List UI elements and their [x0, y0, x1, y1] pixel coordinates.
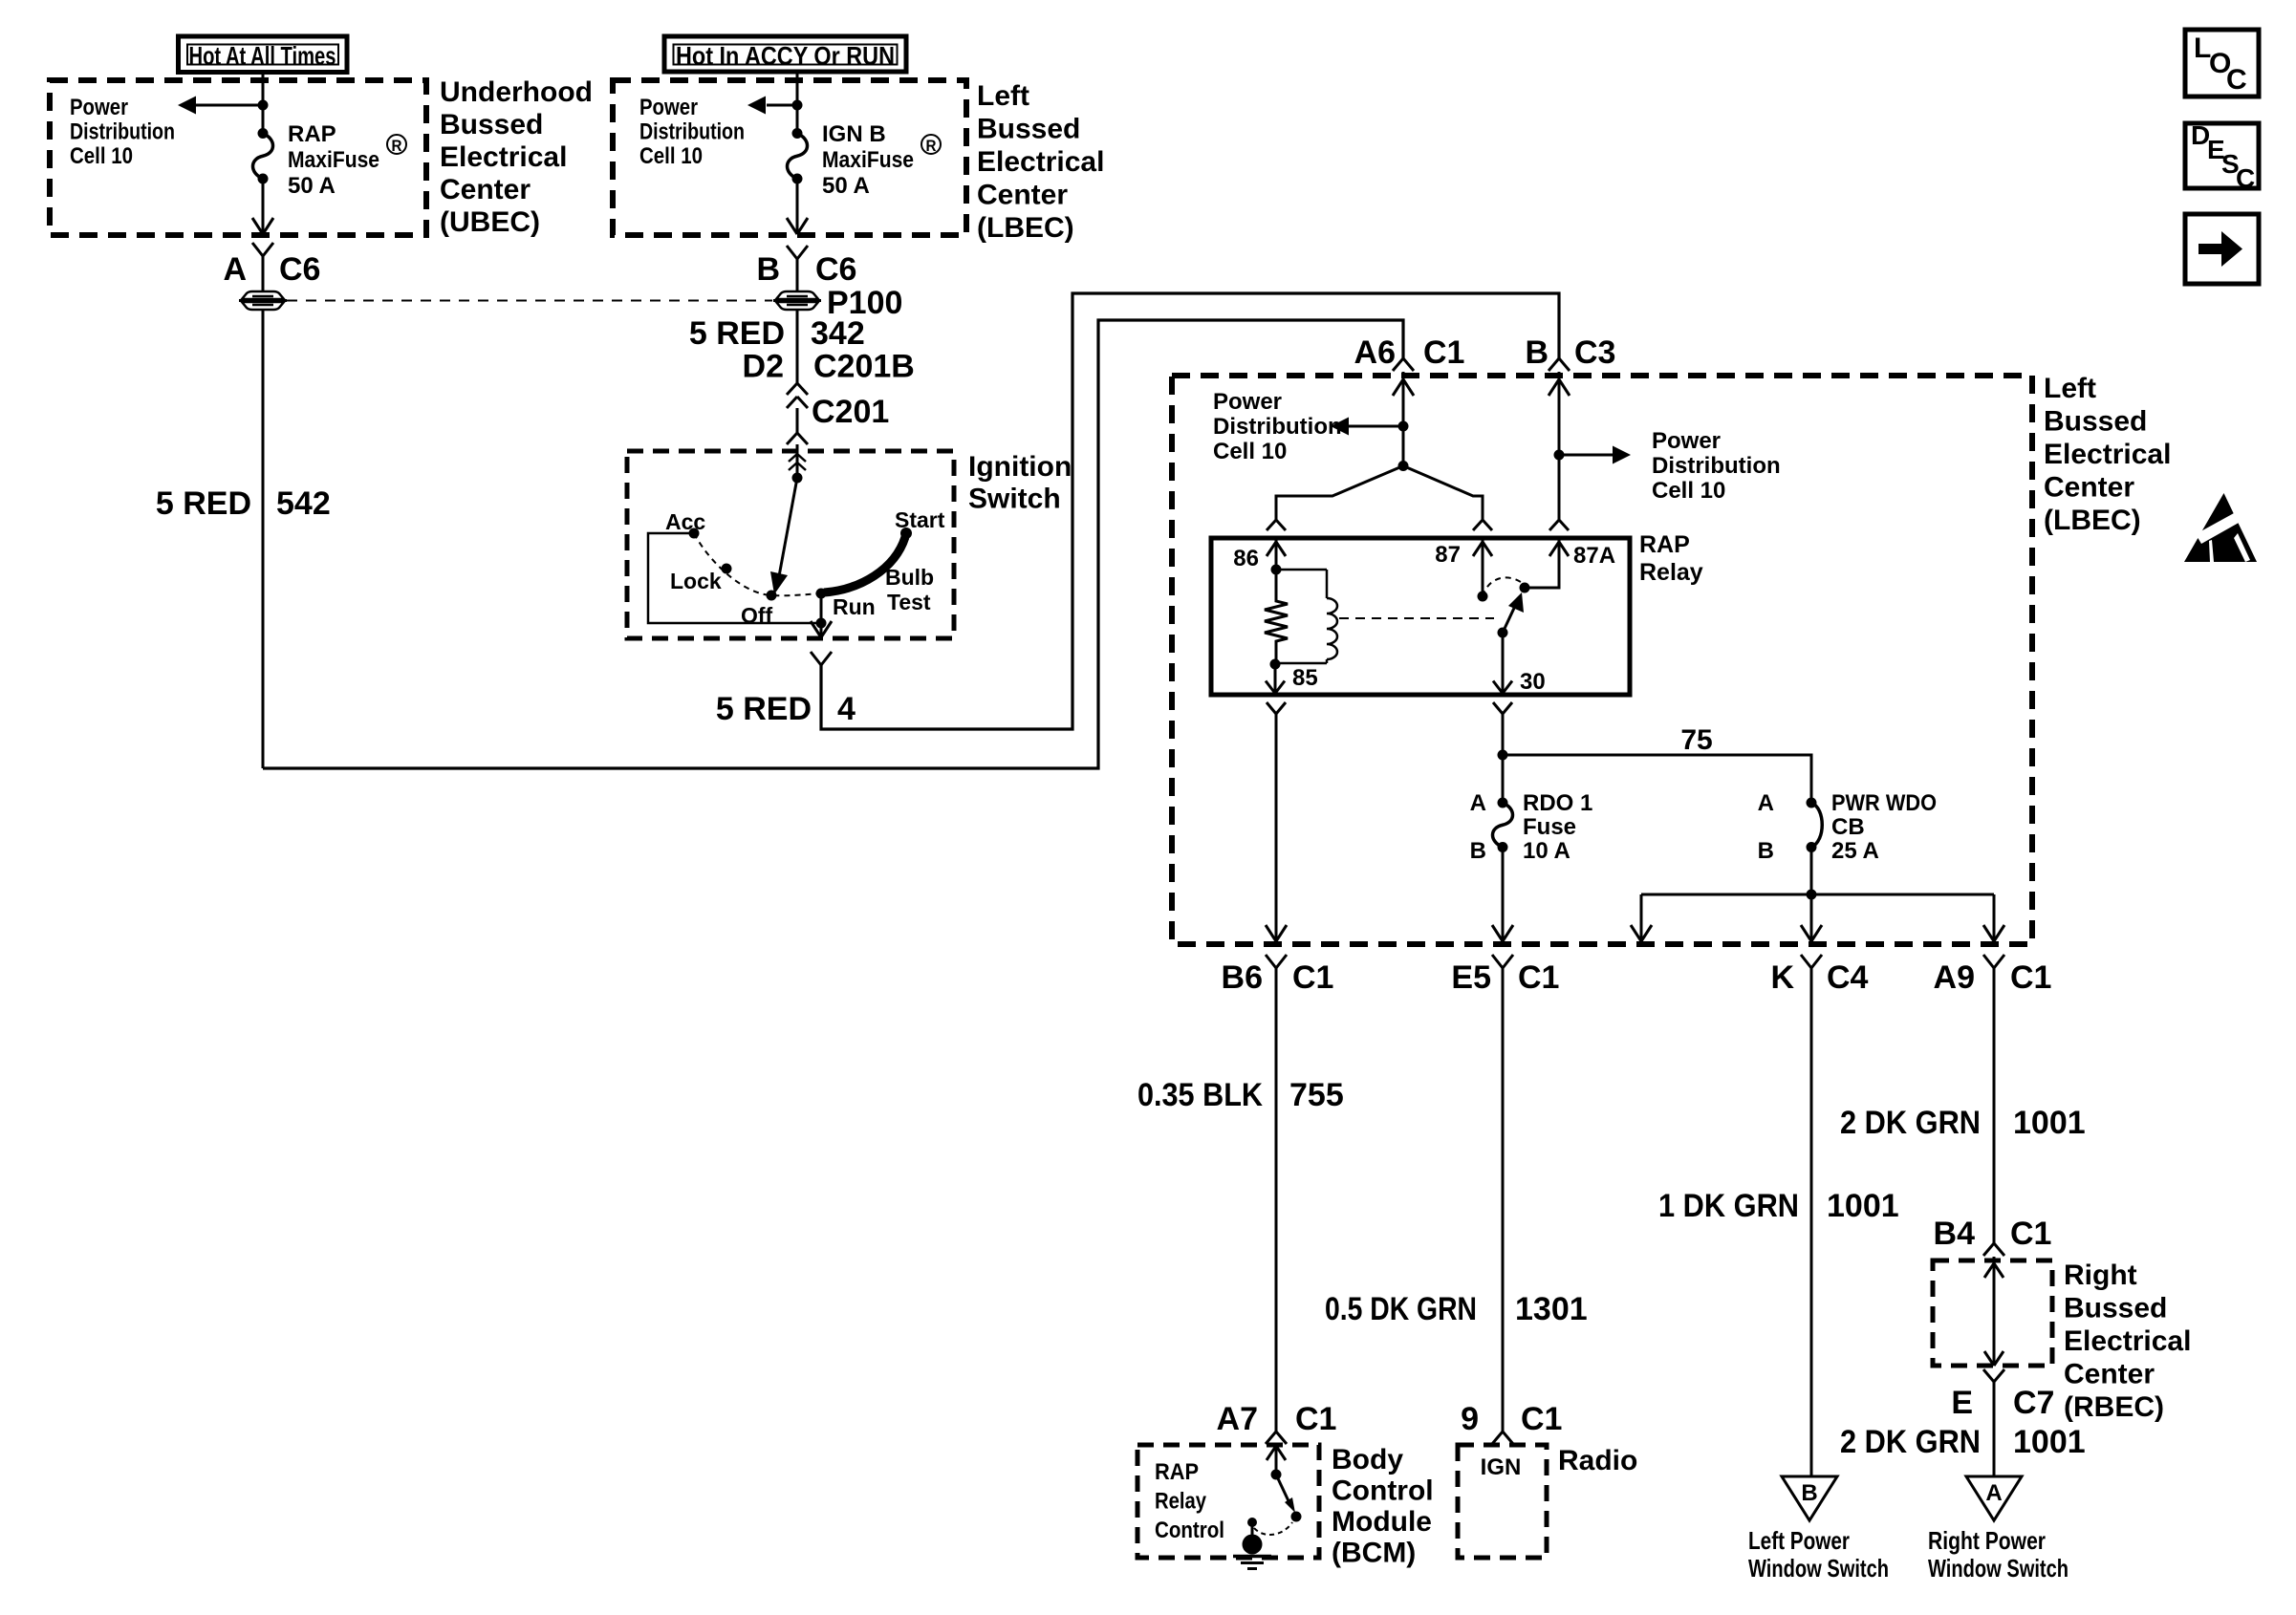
label D2 C201B [743, 349, 915, 385]
relay pin 87A contact [1520, 538, 1570, 593]
svg-text:Distribution: Distribution [639, 119, 745, 145]
svg-text:Center: Center [977, 180, 1068, 211]
svg-text:C6: C6 [279, 251, 320, 288]
svg-text:Right: Right [2064, 1260, 2137, 1291]
svg-text:Distribution: Distribution [70, 119, 175, 145]
wire B C3 to relay pin 87A [1558, 455, 1561, 521]
ignition Start contact [900, 528, 912, 539]
svg-text:Hot In ACCY Or RUN: Hot In ACCY Or RUN [676, 42, 895, 71]
svg-text:Center: Center [2044, 472, 2134, 504]
label Right Power Window Switch [1928, 1526, 2069, 1583]
svg-text:Electrical: Electrical [977, 146, 1104, 178]
wire pin 85 to LBEC bottom edge [1266, 714, 1287, 941]
relay RAP Relay box [1211, 538, 1630, 695]
relay coil resistor [1265, 570, 1288, 670]
label 5 RED 542 [156, 485, 331, 522]
connector chevron below relay pin 30 [1493, 702, 1503, 714]
svg-text:Left: Left [977, 80, 1029, 112]
relay pin 87 contact [1473, 538, 1492, 602]
labels K C4 [1770, 959, 1868, 996]
connector chevron B6 C1 [1266, 955, 1276, 968]
arrow to Power Distribution Cell 10 (LBEC left) [1331, 418, 1409, 436]
connector C201 double chevron [787, 383, 808, 408]
labels A7 C1 [1217, 1401, 1337, 1437]
icon LOC box [2185, 30, 2259, 97]
svg-text:Window Switch: Window Switch [1928, 1554, 2069, 1583]
wire from Hot In ACCY banner into LBEC [796, 72, 799, 105]
wire fuse to UBEC bottom edge with arrow [252, 179, 273, 234]
ignition detent dashed arc Acc-Lock-Off-Run [694, 533, 821, 595]
wire through RBEC with arrows [1984, 1257, 2004, 1366]
svg-text:Bussed: Bussed [977, 114, 1080, 145]
connector A6 C1 into LBEC [1393, 358, 1414, 466]
svg-text:Bussed: Bussed [2064, 1293, 2167, 1324]
svg-text:Control: Control [1155, 1518, 1224, 1543]
svg-text:Electrical: Electrical [440, 141, 567, 173]
relay linkage dashed line [1339, 617, 1494, 619]
labels A C6 [223, 251, 320, 288]
svg-text:Relay: Relay [1639, 559, 1703, 586]
svg-text:Control: Control [1332, 1475, 1434, 1507]
svg-text:Acc: Acc [665, 509, 705, 534]
svg-text:Fuse: Fuse [1523, 814, 1576, 840]
box BCM dashed outline [1137, 1445, 1319, 1558]
svg-text:B: B [756, 251, 780, 288]
ignition Start thick arc [824, 537, 905, 592]
svg-text:0.35 BLK: 0.35 BLK [1137, 1077, 1263, 1113]
svg-text:50 A: 50 A [288, 173, 336, 199]
svg-text:A9: A9 [1934, 959, 1975, 996]
svg-text:Run: Run [833, 594, 876, 619]
wire 0.5 DK GRN 1301 to Radio [1502, 968, 1505, 1432]
svg-text:Left: Left [2044, 373, 2096, 404]
fuse RDO 1 10 A [1493, 803, 1513, 848]
connector chevron below UBEC [252, 243, 263, 256]
label 5 RED 342 [689, 315, 865, 352]
labels A B at PWR WDO CB [1758, 790, 1774, 864]
wire branch left to LBEC bottom edge [1631, 894, 1652, 941]
svg-text:B: B [1470, 838, 1486, 864]
svg-text:Electrical: Electrical [2044, 439, 2171, 470]
box Radio dashed outline [1458, 1445, 1547, 1558]
fuse RAP MaxiFuse 50 A [253, 105, 273, 184]
ignition Lock contact [722, 564, 732, 574]
relay pin 85 with arrow [1266, 664, 1285, 694]
svg-text:5 RED: 5 RED [689, 315, 785, 352]
svg-text:85: 85 [1292, 665, 1318, 691]
svg-text:75: 75 [1680, 724, 1712, 756]
svg-text:25 A: 25 A [1831, 838, 1879, 864]
svg-text:Right Power: Right Power [1928, 1526, 2046, 1555]
circuit breaker PWR WDO CB 25 A [1807, 798, 1823, 853]
wire Run output through box edge [811, 593, 832, 637]
label Left Power Window Switch [1748, 1526, 1889, 1583]
svg-text:MaxiFuse: MaxiFuse [822, 147, 914, 173]
svg-text:C1: C1 [1292, 959, 1333, 996]
relay pin 30 with arrow [1493, 633, 1512, 694]
ignition Acc contact and loop wire [648, 528, 821, 624]
svg-text:MaxiFuse: MaxiFuse [288, 147, 379, 173]
wire CB output with junction [1807, 848, 1817, 900]
svg-text:Power: Power [639, 95, 698, 120]
svg-text:RAP: RAP [1639, 531, 1690, 558]
label 2 DK GRN 1001 lower [1840, 1424, 2086, 1460]
svg-text:A: A [1985, 1480, 2002, 1506]
BCM ground contact [1247, 1518, 1257, 1540]
svg-text:1301: 1301 [1515, 1291, 1588, 1327]
labels E5 C1 [1451, 959, 1559, 996]
svg-text:Bussed: Bussed [2044, 406, 2147, 438]
svg-text:C1: C1 [1423, 334, 1464, 371]
ignition Run junction [816, 618, 827, 629]
svg-text:B: B [1525, 334, 1549, 371]
dashed pass-through line between grommets [287, 300, 772, 302]
svg-text:RDO 1: RDO 1 [1523, 790, 1592, 816]
connector chevron above BCM [1266, 1432, 1276, 1444]
wire 5 RED 542 vertical [262, 310, 265, 768]
wire W2 run to LBEC B C3 [821, 293, 1559, 729]
wire W1 run to LBEC A6 C1 [263, 320, 1403, 768]
svg-text:30: 30 [1520, 669, 1546, 695]
wire into ignition switch [796, 444, 799, 478]
svg-text:C201: C201 [812, 394, 889, 430]
wire pin 30 to circuit 75 junction [1498, 714, 1508, 803]
connector B C3 into LBEC [1549, 358, 1570, 455]
text RAP Relay Control [1155, 1459, 1224, 1543]
wire into BCM with arrow [1267, 1445, 1286, 1480]
svg-text:C1: C1 [1295, 1401, 1336, 1437]
box RBEC dashed outline [1933, 1260, 2052, 1366]
svg-text:Power: Power [1652, 428, 1721, 454]
wire branch center to LBEC bottom edge [1801, 894, 1822, 941]
wire RBEC to right window switch [1993, 1382, 1996, 1476]
ground symbol [1233, 1535, 1271, 1569]
connector chevron below LBEC top [787, 246, 797, 259]
svg-text:CB: CB [1831, 814, 1865, 840]
arrow to Power Distribution Cell 10 (LBEC top) [747, 97, 803, 115]
text Power Distribution Cell 10 (LBEC right) [1652, 428, 1781, 504]
label Underhood Bussed Electrical Center (UBEC) [440, 76, 593, 238]
svg-text:IGN B: IGN B [822, 121, 886, 147]
svg-text:87A: 87A [1573, 543, 1615, 569]
label Left Bussed Electrical Center (LBEC) main [2044, 373, 2171, 536]
svg-text:Distribution: Distribution [1213, 414, 1342, 440]
labels A B at RDO fuse [1470, 790, 1486, 864]
svg-text:10 A: 10 A [1523, 838, 1570, 864]
wire from Hot At All Times banner into UBEC [262, 73, 265, 106]
labels B4 C1 [1934, 1216, 2052, 1252]
svg-text:86: 86 [1233, 546, 1259, 571]
svg-text:B: B [1801, 1480, 1817, 1506]
svg-text:C: C [2226, 64, 2247, 96]
svg-text:(LBEC): (LBEC) [2044, 505, 2141, 536]
relay coil inductor [1276, 570, 1337, 663]
svg-text:Ignition: Ignition [968, 451, 1072, 483]
svg-text:Bussed: Bussed [440, 109, 543, 140]
labels E C7 [1951, 1385, 2054, 1421]
svg-text:C7: C7 [2013, 1385, 2054, 1421]
box LBEC main dashed outline [1172, 376, 2032, 944]
svg-text:Power: Power [70, 95, 128, 120]
connector chevron below RBEC [1983, 1369, 1994, 1382]
text Power Distribution Cell 10 (LBEC left) [1213, 389, 1342, 464]
connector chevron above RBEC [1983, 1243, 1994, 1256]
svg-text:Cell 10: Cell 10 [70, 143, 133, 169]
svg-text:Start: Start [895, 507, 945, 532]
label Left Bussed Electrical Center (LBEC) top [977, 80, 1104, 244]
svg-text:A: A [223, 251, 247, 288]
ESD sensitivity triangle symbol [2184, 493, 2257, 562]
wire 1 DK GRN 1001 to left window switch [1810, 968, 1813, 1476]
label Bulb Test [885, 565, 934, 614]
label PWR WDO CB 25 A [1831, 790, 1937, 864]
ignition Off contact [767, 591, 777, 601]
wire A C6 to grommet [262, 256, 265, 291]
connector chevron above relay pin 87A [1549, 520, 1559, 530]
labels A9 C1 [1934, 959, 2052, 996]
icon arrow box [2185, 214, 2259, 284]
svg-text:Center: Center [2064, 1359, 2155, 1390]
svg-text:1001: 1001 [1827, 1188, 1899, 1224]
svg-text:542: 542 [276, 485, 331, 522]
svg-text:Cell 10: Cell 10 [1213, 439, 1287, 464]
ignition wiper arrow [770, 478, 797, 594]
box Ignition Switch dashed outline [627, 451, 954, 638]
connector triangle A Right Power Window Switch [1966, 1476, 2022, 1520]
banner Hot In ACCY Or RUN [664, 36, 906, 72]
svg-text:(LBEC): (LBEC) [977, 212, 1074, 244]
svg-text:9: 9 [1461, 1401, 1479, 1437]
svg-text:C1: C1 [1521, 1401, 1562, 1437]
label 0.35 BLK 755 [1137, 1077, 1344, 1113]
svg-text:Center: Center [440, 174, 531, 205]
connector chevron above Radio [1492, 1432, 1503, 1444]
svg-text:PWR WDO: PWR WDO [1831, 790, 1937, 816]
svg-text:D2: D2 [743, 349, 784, 385]
svg-text:(UBEC): (UBEC) [440, 206, 540, 238]
svg-text:E5: E5 [1451, 959, 1491, 996]
svg-text:755: 755 [1289, 1077, 1344, 1113]
svg-text:K: K [1770, 959, 1794, 996]
svg-text:Left Power: Left Power [1748, 1526, 1850, 1555]
labels 9 C1 [1461, 1401, 1562, 1437]
label 0.5 DK GRN 1301 [1325, 1291, 1588, 1327]
relay armature with arrow [1498, 592, 1525, 638]
svg-text:A6: A6 [1354, 334, 1396, 371]
label Right Bussed Electrical Center (RBEC) [2064, 1260, 2191, 1423]
svg-text:Electrical: Electrical [2064, 1325, 2191, 1357]
svg-text:Off: Off [741, 603, 773, 628]
text Power Distribution Cell 10 (LBEC top) [639, 95, 745, 169]
ignition feed node [792, 473, 803, 484]
svg-text:C4: C4 [1827, 959, 1869, 996]
label RAP MaxiFuse 50 A [288, 121, 406, 199]
grommet pass-through (left) [242, 291, 284, 299]
box LBEC top dashed outline [613, 80, 966, 235]
svg-text:C201B: C201B [813, 349, 915, 385]
BCM linkage dashed arc [1254, 1522, 1292, 1535]
svg-text:1 DK GRN: 1 DK GRN [1658, 1188, 1799, 1224]
svg-text:5 RED: 5 RED [156, 485, 251, 522]
svg-text:Relay: Relay [1155, 1489, 1207, 1515]
svg-text:C1: C1 [1518, 959, 1559, 996]
svg-text:(RBEC): (RBEC) [2064, 1391, 2164, 1423]
svg-text:2 DK GRN: 2 DK GRN [1840, 1105, 1981, 1141]
svg-text:Switch: Switch [968, 484, 1061, 515]
svg-text:1001: 1001 [2013, 1424, 2086, 1460]
wire 2 DK GRN 1001 to RBEC [1993, 968, 1996, 1243]
connector chevron below relay pin 85 [1267, 702, 1276, 714]
svg-text:C6: C6 [815, 251, 856, 288]
wire 5 RED 342 [796, 310, 799, 383]
labels B C6 [756, 251, 856, 288]
svg-text:A: A [1470, 790, 1486, 816]
wire circuit 75 horizontal [1503, 755, 1811, 803]
connector chevron K C4 [1801, 955, 1811, 968]
svg-text:R: R [926, 137, 937, 155]
svg-text:Test: Test [887, 590, 931, 614]
svg-text:Distribution: Distribution [1652, 453, 1781, 479]
svg-text:Lock: Lock [670, 569, 722, 593]
svg-text:C: C [2236, 163, 2255, 193]
svg-text:Hot At All Times: Hot At All Times [189, 42, 336, 71]
ignition Run contact [816, 589, 827, 599]
svg-text:A7: A7 [1217, 1401, 1258, 1437]
wire fuse to LBEC bottom edge with arrow [787, 179, 808, 234]
label 5 RED 4 [716, 691, 856, 727]
wire CB distribution horizontal [1641, 894, 1994, 896]
wire 0.35 BLK 755 to BCM [1275, 968, 1278, 1432]
connector chevron above relay pin 87 [1473, 520, 1483, 530]
svg-text:2 DK GRN: 2 DK GRN [1840, 1424, 1981, 1460]
relay contact dashed arc [1483, 577, 1525, 596]
svg-text:RAP: RAP [288, 121, 336, 147]
svg-text:1001: 1001 [2013, 1105, 2086, 1141]
svg-text:A: A [1758, 790, 1774, 816]
svg-text:Cell 10: Cell 10 [639, 143, 703, 169]
labels B6 C1 [1222, 959, 1334, 996]
BCM driver armature with arrow [1276, 1475, 1302, 1522]
connector chevron above relay pin 86 [1267, 520, 1276, 530]
svg-text:C1: C1 [2010, 1216, 2051, 1252]
svg-text:Cell 10: Cell 10 [1652, 478, 1725, 504]
banner Hot At All Times [179, 36, 348, 73]
label RDO 1 Fuse 10 A [1523, 790, 1592, 864]
arrow to Power Distribution Cell 10 (LBEC right) [1554, 446, 1632, 464]
label 1 DK GRN 1001 [1658, 1188, 1899, 1224]
box UBEC dashed outline [50, 80, 426, 235]
relay pin 86 with arrow [1267, 538, 1286, 575]
wire RDO fuse to LBEC bottom edge [1492, 848, 1513, 942]
svg-text:RAP: RAP [1155, 1459, 1199, 1485]
grommet P100 [776, 291, 818, 299]
svg-text:Underhood: Underhood [440, 76, 593, 108]
connector triangle B Left Power Window Switch [1782, 1476, 1837, 1520]
svg-text:(BCM): (BCM) [1332, 1538, 1416, 1569]
svg-text:C3: C3 [1574, 334, 1615, 371]
labels B C3 [1525, 334, 1615, 371]
svg-text:4: 4 [837, 691, 856, 727]
svg-text:C1: C1 [2010, 959, 2051, 996]
label Ignition Switch [968, 451, 1072, 515]
svg-text:Radio: Radio [1558, 1445, 1637, 1476]
svg-text:B: B [1758, 838, 1774, 864]
double chevron inside ignition top [789, 454, 806, 470]
label 2 DK GRN 1001 upper [1840, 1105, 2086, 1141]
wire branch right to LBEC bottom edge [1983, 894, 2004, 941]
connector chevron above ignition switch [787, 433, 797, 444]
connector chevron A9 C1 [1983, 955, 1994, 968]
label RAP Relay [1639, 531, 1703, 586]
connector chevron below ignition switch [811, 652, 821, 665]
svg-text:B6: B6 [1222, 959, 1263, 996]
svg-text:Module: Module [1332, 1506, 1432, 1538]
svg-text:B4: B4 [1934, 1216, 1976, 1252]
text Power Distribution Cell 10 (UBEC) [70, 95, 175, 169]
svg-text:87: 87 [1435, 542, 1461, 568]
svg-text:0.5 DK GRN: 0.5 DK GRN [1325, 1291, 1477, 1327]
wire B C6 to grommet P100 [796, 259, 799, 291]
svg-text:IGN: IGN [1481, 1454, 1522, 1480]
wire Y-split to relay pins 86 and 87 [1276, 461, 1483, 521]
fuse IGN B MaxiFuse 50 A [788, 105, 808, 184]
label Body Control Module (BCM) [1332, 1444, 1434, 1569]
svg-text:Body: Body [1332, 1444, 1403, 1475]
svg-text:342: 342 [811, 315, 865, 352]
arrow to Power Distribution Cell 10 (UBEC) [178, 97, 269, 115]
icon DESC box [2185, 120, 2259, 193]
label IGN B MaxiFuse 50 A [822, 121, 941, 199]
wire C201 to ignition switch [796, 408, 799, 433]
svg-text:50 A: 50 A [822, 173, 870, 199]
svg-text:Power: Power [1213, 389, 1282, 415]
svg-text:Bulb: Bulb [885, 565, 934, 590]
svg-text:Window Switch: Window Switch [1748, 1554, 1889, 1583]
labels A6 C1 [1354, 334, 1465, 371]
svg-text:E: E [1951, 1385, 1973, 1421]
connector chevron E5 C1 [1492, 955, 1503, 968]
svg-text:5 RED: 5 RED [716, 691, 812, 727]
svg-text:R: R [392, 137, 402, 155]
